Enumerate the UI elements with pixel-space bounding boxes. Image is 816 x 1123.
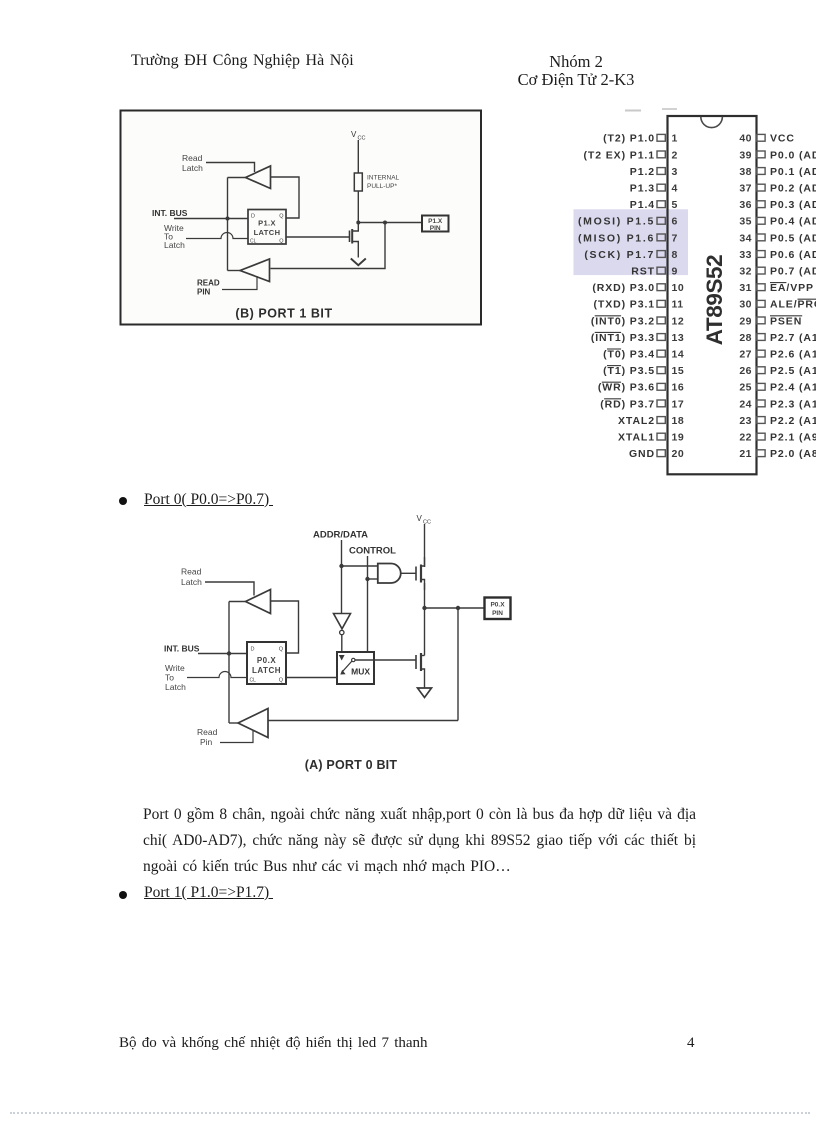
svg-text:XTAL2: XTAL2 bbox=[618, 415, 655, 427]
svg-text:23: 23 bbox=[739, 415, 752, 427]
svg-text:P2.7 (A15): P2.7 (A15) bbox=[770, 332, 816, 344]
svg-text:P1.X: P1.X bbox=[428, 218, 443, 225]
pin 13 (INT1) P3.3 bbox=[657, 334, 665, 341]
wire pin node down to read buffer bbox=[271, 223, 386, 269]
pin 19 XTAL1 bbox=[657, 433, 665, 440]
svg-text:EA/VPP: EA/VPP bbox=[770, 282, 814, 294]
wire buffer output to bus bbox=[229, 601, 246, 603]
svg-text:15: 15 bbox=[672, 365, 685, 377]
svg-text:24: 24 bbox=[739, 398, 752, 410]
pin 4 P1.3 bbox=[657, 184, 665, 191]
svg-text:8: 8 bbox=[672, 249, 678, 261]
MUX box bbox=[337, 652, 374, 684]
svg-text:P0.5 (AD5): P0.5 (AD5) bbox=[770, 232, 816, 244]
pin 8 (SCK) P1.7 bbox=[657, 251, 665, 258]
svg-text:(SCK) P1.7: (SCK) P1.7 bbox=[584, 249, 655, 261]
svg-text:P2.6 (A14): P2.6 (A14) bbox=[770, 349, 816, 361]
svg-text:35: 35 bbox=[739, 216, 752, 228]
wire buffer output to bus bbox=[228, 177, 246, 179]
svg-text:Read: Read bbox=[181, 567, 202, 577]
svg-text:P2.5 (A13): P2.5 (A13) bbox=[770, 365, 816, 377]
svg-text:INT. BUS: INT. BUS bbox=[152, 208, 188, 218]
wire node to pin box bbox=[358, 222, 422, 224]
svg-text:7: 7 bbox=[672, 232, 678, 244]
internal bus vertical wire bbox=[228, 602, 230, 724]
pin 39 P0.0 (AD0) bbox=[757, 151, 766, 158]
svg-text:17: 17 bbox=[672, 398, 685, 410]
wire read-pin label to buffer bbox=[220, 731, 253, 743]
wire feedback down bbox=[457, 608, 459, 721]
wire write-to-latch to CL bbox=[186, 233, 248, 239]
svg-text:9: 9 bbox=[672, 266, 678, 278]
svg-text:14: 14 bbox=[672, 349, 685, 361]
svg-text:PIN: PIN bbox=[430, 225, 441, 232]
svg-text:Read: Read bbox=[197, 727, 218, 737]
svg-text:27: 27 bbox=[739, 349, 752, 361]
internal bus vertical wire bbox=[227, 178, 229, 271]
svg-text:4: 4 bbox=[672, 183, 678, 195]
wire read buffer output to bus bbox=[229, 722, 238, 724]
svg-text:Latch: Latch bbox=[182, 163, 203, 173]
pin 32 P0.7 (AD7) bbox=[757, 267, 766, 274]
figure B frame bbox=[121, 111, 482, 325]
svg-text:33: 33 bbox=[739, 249, 752, 261]
svg-text:P2.3 (A11): P2.3 (A11) bbox=[770, 398, 816, 410]
latch P1.X bbox=[248, 210, 286, 245]
svg-text:1: 1 bbox=[672, 133, 678, 145]
pin 17 (RD) P3.7 bbox=[657, 400, 665, 407]
stray scan marks above IC bbox=[625, 110, 641, 112]
transistor Q1 (port FET) bbox=[349, 231, 351, 243]
svg-text:13: 13 bbox=[672, 332, 685, 344]
svg-text:(TXD) P3.1: (TXD) P3.1 bbox=[593, 299, 655, 311]
svg-text:ALE/PROG: ALE/PROG bbox=[770, 299, 816, 311]
svg-text:To: To bbox=[165, 673, 174, 683]
pin 3 P1.2 bbox=[657, 168, 665, 175]
pin 33 P0.6 (AD6) bbox=[757, 251, 766, 258]
svg-text:31: 31 bbox=[739, 282, 752, 294]
svg-text:(MOSI) P1.5: (MOSI) P1.5 bbox=[578, 216, 655, 228]
svg-text:READ: READ bbox=[197, 279, 220, 288]
svg-text:P1.4: P1.4 bbox=[630, 199, 655, 211]
svg-text:P0.2 (AD2): P0.2 (AD2) bbox=[770, 183, 816, 195]
pin box P0.X PIN bbox=[485, 598, 511, 620]
pin 2 (T2 EX) P1.1 bbox=[657, 151, 665, 158]
svg-text:Q: Q bbox=[279, 647, 284, 653]
pin 30 ALE/PROG bbox=[757, 300, 766, 307]
wire INT.BUS to latch D bbox=[174, 218, 248, 220]
svg-text:(INT0) P3.2: (INT0) P3.2 bbox=[591, 315, 655, 327]
wire latch Q to MUX bbox=[286, 677, 337, 679]
IC highlight (pins 6-9) bbox=[574, 209, 689, 275]
svg-text:PULL-UP*: PULL-UP* bbox=[367, 183, 397, 190]
wire Vcc to resistor bbox=[357, 140, 359, 173]
svg-text:(A) PORT 0 BIT: (A) PORT 0 BIT bbox=[305, 758, 398, 772]
wire addr to AND input bbox=[342, 565, 378, 567]
transistor lower FET bbox=[415, 655, 417, 669]
latch P0.X bbox=[247, 642, 286, 684]
wire control vertical bbox=[367, 556, 369, 652]
svg-text:(T0) P3.4: (T0) P3.4 bbox=[603, 349, 655, 361]
svg-text:P0.3 (AD3): P0.3 (AD3) bbox=[770, 199, 816, 211]
node bus junction bbox=[227, 651, 231, 655]
svg-text:Q: Q bbox=[279, 214, 284, 220]
node pin feedback junction bbox=[383, 221, 387, 225]
pin 24 P2.3 (A11) bbox=[757, 400, 766, 407]
IC body U1 AT89S52 bbox=[668, 116, 757, 474]
read pin buffer bbox=[238, 709, 268, 738]
pin 40 VCC bbox=[757, 134, 766, 141]
AND gate bbox=[378, 564, 401, 584]
pin 16 (WR) P3.6 bbox=[657, 383, 665, 390]
node bus/INT.BUS junction bbox=[226, 217, 230, 221]
svg-text:ADDR/DATA: ADDR/DATA bbox=[313, 530, 368, 541]
pin 27 P2.6 (A14) bbox=[757, 350, 766, 357]
svg-text:21: 21 bbox=[739, 448, 752, 460]
pin 5 P1.4 bbox=[657, 201, 665, 208]
pin 6 (MOSI) P1.5 bbox=[657, 217, 665, 224]
svg-text:AT89S52: AT89S52 bbox=[702, 255, 727, 346]
wire read-latch to buffer bbox=[206, 163, 255, 173]
inverter bbox=[334, 614, 351, 629]
svg-text:P0.6 (AD6): P0.6 (AD6) bbox=[770, 249, 816, 261]
wire read-pin label to buffer bbox=[222, 276, 257, 290]
pin 34 P0.5 (AD5) bbox=[757, 234, 766, 241]
pin 11 (TXD) P3.1 bbox=[657, 300, 665, 307]
pin 9 RST bbox=[657, 267, 665, 274]
wire inverter to MUX bbox=[341, 635, 343, 652]
svg-text:10: 10 bbox=[672, 282, 685, 294]
svg-text:P1.3: P1.3 bbox=[630, 183, 655, 195]
svg-text:(MISO) P1.6: (MISO) P1.6 bbox=[578, 232, 655, 244]
pin 22 P2.1 (A9) bbox=[757, 433, 766, 440]
pin 37 P0.2 (AD2) bbox=[757, 184, 766, 191]
svg-text:MUX: MUX bbox=[351, 667, 370, 677]
wire Vcc vertical bbox=[424, 524, 426, 567]
pin 36 P0.3 (AD3) bbox=[757, 201, 766, 208]
svg-text:RST: RST bbox=[631, 266, 655, 278]
IC pin-1 notch bbox=[701, 117, 723, 128]
svg-text:12: 12 bbox=[672, 315, 685, 327]
pin 25 P2.4 (A12) bbox=[757, 383, 766, 390]
svg-text:D: D bbox=[251, 214, 255, 220]
svg-text:26: 26 bbox=[739, 365, 752, 377]
svg-text:18: 18 bbox=[672, 415, 685, 427]
wire INT.BUS to latch D bbox=[198, 653, 247, 655]
svg-text:29: 29 bbox=[739, 315, 752, 327]
node feedback junction bbox=[456, 606, 460, 610]
svg-text:37: 37 bbox=[739, 183, 752, 195]
pin 31 EA/VPP bbox=[757, 284, 766, 291]
node pin junction bbox=[422, 606, 426, 610]
svg-text:34: 34 bbox=[739, 232, 752, 244]
wire read buffer output to bus bbox=[228, 270, 241, 272]
svg-text:P2.1 (A9): P2.1 (A9) bbox=[770, 432, 816, 444]
svg-text:P2.2 (A10): P2.2 (A10) bbox=[770, 415, 816, 427]
node addr/and junction bbox=[339, 564, 343, 568]
resistor internal pull-up bbox=[354, 173, 362, 191]
svg-text:39: 39 bbox=[739, 149, 752, 161]
read pin buffer bbox=[240, 259, 270, 282]
svg-text:CONTROL: CONTROL bbox=[349, 546, 396, 557]
svg-text:(INT1) P3.3: (INT1) P3.3 bbox=[591, 332, 655, 344]
svg-text:XTAL1: XTAL1 bbox=[618, 432, 655, 444]
node drain junction bbox=[356, 221, 360, 225]
pin 28 P2.7 (A15) bbox=[757, 334, 766, 341]
pin 21 P2.0 (A8) bbox=[757, 450, 766, 457]
svg-text:P0.1 (AD1): P0.1 (AD1) bbox=[770, 166, 816, 178]
wire control to AND input bbox=[368, 578, 378, 580]
svg-text:28: 28 bbox=[739, 332, 752, 344]
node control/and junction bbox=[365, 577, 369, 581]
svg-text:(WR) P3.6: (WR) P3.6 bbox=[598, 382, 655, 394]
svg-text:P1.X: P1.X bbox=[258, 219, 276, 228]
svg-text:P0.0 (AD0): P0.0 (AD0) bbox=[770, 149, 816, 161]
svg-text:19: 19 bbox=[672, 432, 685, 444]
pin 15 (T1) P3.5 bbox=[657, 367, 665, 374]
pin 38 P0.1 (AD1) bbox=[757, 168, 766, 175]
svg-text:LATCH: LATCH bbox=[252, 666, 281, 675]
svg-text:Q: Q bbox=[279, 239, 284, 245]
pin 29 PSEN bbox=[757, 317, 766, 324]
svg-text:P1.2: P1.2 bbox=[630, 166, 655, 178]
svg-text:Pin: Pin bbox=[200, 737, 213, 747]
svg-text:3: 3 bbox=[672, 166, 678, 178]
svg-text:P2.0 (A8): P2.0 (A8) bbox=[770, 448, 816, 460]
svg-text:Q: Q bbox=[279, 678, 284, 684]
svg-text:2: 2 bbox=[672, 149, 678, 161]
svg-text:PIN: PIN bbox=[492, 610, 503, 617]
transistor upper FET bbox=[415, 567, 417, 581]
svg-text:Latch: Latch bbox=[164, 240, 185, 250]
svg-text:(B) PORT 1 BIT: (B) PORT 1 BIT bbox=[235, 307, 332, 321]
pin 7 (MISO) P1.6 bbox=[657, 234, 665, 241]
svg-text:(T2) P1.0: (T2) P1.0 bbox=[603, 133, 655, 145]
svg-text:V: V bbox=[417, 514, 423, 523]
svg-text:36: 36 bbox=[739, 199, 752, 211]
svg-text:Read: Read bbox=[182, 153, 203, 163]
svg-text:CL: CL bbox=[250, 678, 257, 684]
svg-text:PIN: PIN bbox=[197, 288, 211, 297]
wire latch Q-bar to FET gate bbox=[286, 236, 350, 238]
pin 26 P2.5 (A13) bbox=[757, 367, 766, 374]
pin 1 (T2) P1.0 bbox=[657, 134, 665, 141]
svg-text:6: 6 bbox=[672, 216, 678, 228]
wire FET source down to pin node bbox=[424, 583, 426, 656]
svg-text:P2.4 (A12): P2.4 (A12) bbox=[770, 382, 816, 394]
svg-text:30: 30 bbox=[739, 299, 752, 311]
svg-text:P0.X: P0.X bbox=[490, 602, 505, 609]
pin 18 XTAL2 bbox=[657, 417, 665, 424]
svg-text:5: 5 bbox=[672, 199, 678, 211]
svg-text:Latch: Latch bbox=[165, 682, 186, 692]
svg-text:D: D bbox=[251, 647, 255, 653]
svg-text:INT. BUS: INT. BUS bbox=[164, 644, 200, 654]
pin box P1.X PIN bbox=[422, 216, 449, 232]
svg-text:INTERNAL: INTERNAL bbox=[367, 175, 400, 182]
pin 14 (T0) P3.4 bbox=[657, 350, 665, 357]
wire AND output to upper FET gate bbox=[401, 572, 416, 574]
wire buffer input from latch Q bbox=[271, 601, 299, 653]
ground bbox=[418, 688, 432, 698]
svg-text:25: 25 bbox=[739, 382, 752, 394]
wire read-latch to buffer bbox=[205, 582, 254, 596]
ground bbox=[351, 259, 366, 266]
svg-text:38: 38 bbox=[739, 166, 752, 178]
svg-text:LATCH: LATCH bbox=[254, 228, 281, 237]
pin 35 P0.4 (AD4) bbox=[757, 217, 766, 224]
svg-text:(RXD) P3.0: (RXD) P3.0 bbox=[592, 282, 655, 294]
wire resistor to drain node bbox=[357, 191, 359, 223]
svg-text:Write: Write bbox=[165, 663, 185, 673]
read latch buffer bbox=[246, 590, 271, 614]
wire addr/data vertical bbox=[341, 540, 343, 613]
pin 23 P2.2 (A10) bbox=[757, 417, 766, 424]
svg-text:20: 20 bbox=[672, 448, 685, 460]
svg-text:16: 16 bbox=[672, 382, 685, 394]
svg-text:Latch: Latch bbox=[181, 577, 202, 587]
svg-text:32: 32 bbox=[739, 266, 752, 278]
svg-text:P0.X: P0.X bbox=[257, 656, 277, 665]
svg-text:P0.4 (AD4): P0.4 (AD4) bbox=[770, 216, 816, 228]
wire MUX to lower FET gate bbox=[355, 659, 416, 661]
svg-text:40: 40 bbox=[739, 133, 752, 145]
svg-text:(T1) P3.5: (T1) P3.5 bbox=[603, 365, 655, 377]
svg-text:V: V bbox=[351, 130, 357, 139]
pin 12 (INT0) P3.2 bbox=[657, 317, 665, 324]
svg-text:(RD) P3.7: (RD) P3.7 bbox=[600, 398, 655, 410]
svg-text:GND: GND bbox=[629, 448, 655, 460]
svg-text:P0.7 (AD7): P0.7 (AD7) bbox=[770, 266, 816, 278]
read latch buffer (tri-state) bbox=[246, 166, 271, 189]
wire node to pin box bbox=[425, 607, 485, 609]
svg-text:22: 22 bbox=[739, 432, 752, 444]
pin 10 (RXD) P3.0 bbox=[657, 284, 665, 291]
wire write-to-latch to CL bbox=[187, 672, 247, 678]
wire feedback to read buffer bbox=[268, 720, 458, 722]
svg-text:CL: CL bbox=[250, 239, 257, 245]
svg-text:VCC: VCC bbox=[770, 133, 795, 145]
svg-text:(T2 EX) P1.1: (T2 EX) P1.1 bbox=[584, 149, 656, 161]
wire buffer input from latch Q bbox=[271, 177, 300, 218]
svg-text:11: 11 bbox=[672, 299, 684, 311]
pin 20 GND bbox=[657, 450, 665, 457]
svg-text:PSEN: PSEN bbox=[770, 315, 802, 327]
